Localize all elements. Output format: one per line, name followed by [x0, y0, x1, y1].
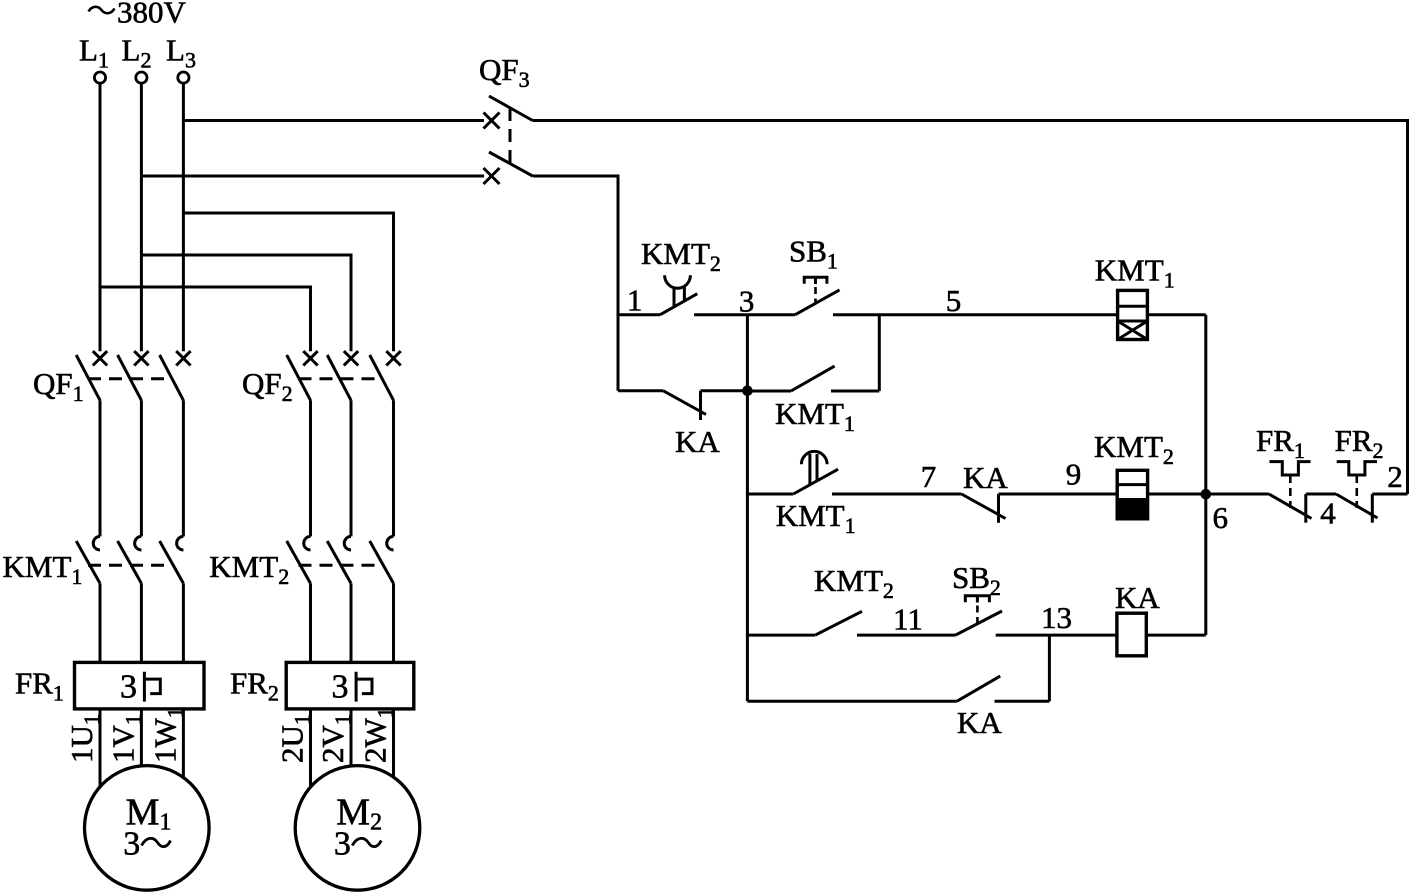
junction node 3 dot — [742, 385, 753, 396]
contactor KMT1 main contact pole 2 — [118, 536, 142, 662]
wire QF3 pole B to control rail — [533, 176, 618, 391]
thermal contact FR2 NC — [1336, 462, 1378, 523]
relay coil KMT2 (time relay, delayed) — [1117, 470, 1147, 519]
svg-text:3: 3 — [334, 826, 351, 863]
svg-text:6: 6 — [1213, 500, 1229, 535]
wire L3 branch to QF2 pole 3 — [183, 213, 393, 351]
svg-text:2: 2 — [1387, 459, 1403, 494]
breaker QF1 pole 1 — [76, 351, 107, 536]
wire KA NO to node13 riser — [995, 700, 1050, 703]
wire KMT1 delayed contact to KA NC — [832, 493, 962, 496]
contactor KMT1 mechanical link — [88, 564, 172, 567]
wire FR2 to motor M2 phase 1 — [309, 709, 312, 787]
svg-text:KMT1: KMT1 — [776, 498, 856, 538]
wire KA NC to KMT2 coil — [999, 493, 1118, 496]
svg-text:4: 4 — [1320, 496, 1336, 531]
wire KA coil to node6 rail — [1146, 634, 1206, 637]
svg-text:KMT2: KMT2 — [814, 563, 894, 603]
wire row3 from node3 rail to KMT2 contact — [747, 634, 815, 637]
relay coil KMT1 (time relay with X cell) — [1118, 290, 1148, 339]
thermal contact FR1 NC — [1269, 462, 1312, 523]
wire L3 branch to QF3 pole A — [183, 119, 484, 122]
terminal L2 — [136, 72, 147, 83]
svg-text:KMT2: KMT2 — [209, 549, 289, 589]
breaker QF2 pole 1 — [287, 351, 318, 536]
wire row4 from node3 rail to KA NO — [747, 700, 956, 703]
svg-text:KMT2: KMT2 — [1094, 429, 1174, 469]
wire L1 branch to QF2 pole 1 — [100, 287, 311, 351]
wire L3 vertical to QF1 pole 3 — [182, 83, 185, 351]
svg-text:KMT1: KMT1 — [775, 396, 855, 436]
wire L2 branch to QF2 pole 2 — [141, 255, 351, 351]
terminal L3 — [178, 72, 189, 83]
breaker QF1 pole 3 — [160, 351, 191, 536]
breaker QF2 mechanical link — [299, 377, 383, 380]
contact KMT2 delayed NO (time-delay contact) — [660, 275, 697, 314]
wire KMT1 coil to node6 rail — [1147, 313, 1205, 316]
wire L2 branch to QF3 pole B — [141, 175, 484, 178]
wire FR1 to motor M1 phase 3 — [182, 709, 185, 778]
contact KMT1 delayed NO (time-delay contact) — [793, 451, 838, 494]
relay contact KA NC (upper, below node 1) — [618, 391, 747, 420]
motor M1 — [85, 766, 210, 891]
wire SB2 to KA coil (node 13 run) — [996, 634, 1117, 637]
pushbutton SB2 (NO with actuator) — [956, 596, 1003, 635]
relay contact KA NO (bypass) — [957, 676, 1000, 701]
svg-text:KMT1: KMT1 — [3, 549, 83, 589]
wire FR2 to motor M2 phase 2 — [350, 709, 353, 766]
wire row2 from node3 rail — [747, 493, 793, 496]
breaker QF2 pole 3 — [370, 351, 401, 536]
thermal relay FR1 heater box — [75, 662, 205, 709]
breaker QF3 mechanical link — [509, 108, 512, 163]
motor M2 — [295, 766, 420, 891]
wire FR2 to motor M2 phase 3 — [392, 709, 395, 777]
contactor KMT2 mechanical link — [299, 564, 383, 567]
svg-text:1: 1 — [627, 283, 643, 318]
wire node13 riser to bypass row — [1048, 635, 1051, 701]
contactor KMT1 main contact pole 1 — [76, 536, 100, 662]
wire top rail from QF3 pole A to node 2 rail — [533, 121, 1408, 495]
contactor KMT2 main contact pole 2 — [327, 536, 351, 662]
svg-text:3: 3 — [332, 669, 349, 706]
contactor KMT2 main contact pole 3 — [370, 536, 394, 662]
wire node6 to FR1 contact — [1206, 493, 1269, 496]
breaker QF3 pole B — [484, 152, 533, 184]
breaker QF3 pole A — [484, 96, 533, 129]
svg-text:11: 11 — [893, 602, 923, 637]
contactor KMT1 main contact pole 3 — [160, 536, 184, 662]
relay coil KA — [1117, 613, 1146, 656]
terminal L1 — [94, 72, 105, 83]
svg-text:9: 9 — [1066, 457, 1082, 492]
svg-text:KMT2: KMT2 — [641, 236, 721, 276]
wire SB1 to KMT1 coil (node 5 run) — [833, 313, 1118, 316]
svg-text:KA: KA — [1115, 580, 1160, 615]
wire FR1 to motor M1 phase 2 — [140, 709, 143, 766]
wire FR1 to FR2 contact — [1306, 493, 1336, 496]
svg-text:3: 3 — [123, 826, 140, 863]
contact KMT1 NO self-hold — [747, 366, 879, 391]
wire L1 vertical to QF1 pole 1 — [99, 83, 102, 351]
wire self-hold riser — [878, 315, 881, 391]
junction node 6 dot — [1201, 489, 1212, 500]
breaker QF1 mechanical link — [88, 377, 172, 380]
value label ~380V — [89, 0, 187, 30]
wire FR2 to node 2 rail — [1372, 493, 1407, 496]
relay contact KA NC (row2) — [962, 494, 1006, 523]
wire row1 left rail to KMT2 contact — [618, 313, 660, 316]
wire KMT2 coil to node 6 — [1148, 493, 1206, 496]
svg-text:KA: KA — [675, 424, 720, 459]
wire FR1 to motor M1 phase 1 — [99, 709, 102, 787]
wire KMT2 contact to node 3 — [694, 313, 747, 316]
svg-text:5: 5 — [946, 283, 962, 318]
thermal relay FR2 heater box — [286, 662, 414, 709]
wire node3 vertical — [746, 315, 749, 702]
wire KMT2 NO to SB2 — [857, 634, 956, 637]
svg-text:7: 7 — [921, 459, 937, 494]
contact KMT2 NO (row3) — [815, 611, 862, 635]
svg-text:KA: KA — [957, 705, 1002, 740]
svg-text:380V: 380V — [117, 0, 187, 30]
svg-text:KMT1: KMT1 — [1095, 253, 1175, 293]
svg-text:13: 13 — [1041, 600, 1072, 635]
pushbutton SB1 (start, NO) — [795, 277, 839, 314]
breaker QF2 pole 2 — [327, 351, 358, 536]
svg-text:KA: KA — [963, 460, 1008, 495]
wire node 3 to SB1 — [747, 313, 795, 316]
wire node6 rail vertical — [1204, 315, 1207, 635]
svg-text:3: 3 — [120, 669, 137, 706]
breaker QF1 pole 2 — [118, 351, 149, 536]
contactor KMT2 main contact pole 1 — [287, 536, 311, 662]
wire L2 vertical to QF1 pole 2 — [140, 83, 143, 351]
